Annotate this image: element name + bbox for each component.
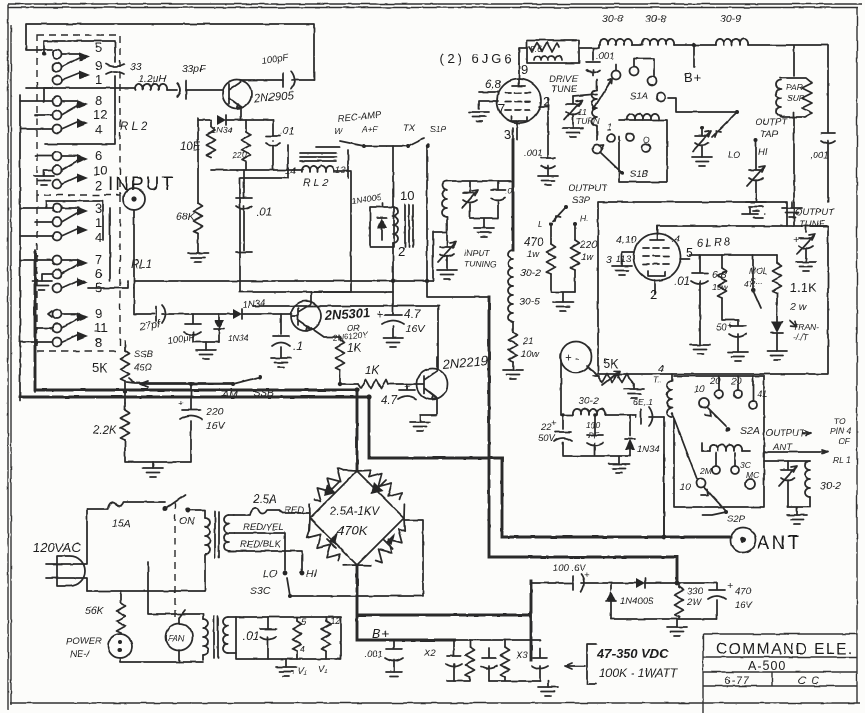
svg-text:33: 33	[130, 61, 142, 73]
capacitor 100uF	[184, 314, 219, 342]
parasitic suppressor R-L box	[527, 40, 579, 63]
ground audio in	[205, 342, 207, 350]
wire INPUT drop and RF bus	[134, 210, 433, 281]
svg-text:ANT: ANT	[757, 533, 801, 554]
svg-text:1K: 1K	[347, 343, 362, 355]
svg-text:O: O	[643, 135, 650, 145]
svg-text:+: +	[584, 570, 590, 581]
svg-text:12: 12	[93, 107, 107, 122]
wire coil to S2B	[672, 413, 697, 479]
svg-text:OUTPUT: OUTPUT	[766, 428, 806, 439]
relay RL2 contact group 8-12-4	[53, 93, 108, 137]
svg-text:220: 220	[205, 406, 224, 418]
svg-text:2M: 2M	[699, 466, 713, 476]
diode 1N34 series	[178, 313, 233, 315]
svg-text:+: +	[727, 320, 733, 332]
ground under .01	[236, 251, 252, 253]
svg-text:68K: 68K	[176, 211, 196, 223]
svg-text:100: 100	[586, 420, 600, 430]
mechanical link dashed	[174, 502, 176, 618]
grounds cathode parts	[690, 345, 710, 354]
svg-text:R L 2: R L 2	[303, 177, 328, 189]
6LR8 plate to top	[656, 232, 658, 234]
switch S1B wafer	[619, 120, 667, 182]
transistor Q1 2N2905	[223, 80, 252, 109]
svg-text:5: 5	[95, 40, 102, 55]
svg-text:6: 6	[95, 266, 102, 281]
svg-text:100 .6V: 100 .6V	[553, 563, 587, 574]
svg-text:OUTPUT: OUTPUT	[795, 207, 835, 218]
T2 core	[405, 205, 413, 247]
resistor 1.1K 2W	[776, 255, 778, 263]
capacitor 22 50V	[554, 415, 572, 455]
svg-text:11: 11	[94, 320, 108, 335]
capacitor .001 screen	[586, 48, 600, 76]
transformer T1 primary	[205, 518, 210, 554]
coil 30-2 output	[805, 461, 810, 497]
coil 30-2 mod	[561, 414, 573, 416]
filter output cap	[505, 640, 548, 681]
fuse 15A primary	[87, 502, 165, 509]
svg-text:B+: B+	[684, 70, 702, 85]
6LR8 output bus pin5	[690, 254, 777, 256]
svg-text:TX: TX	[403, 123, 416, 134]
svg-text:6.8: 6.8	[712, 269, 727, 281]
ground 470/220	[551, 292, 575, 302]
fuse 2.5A secondary	[234, 508, 310, 515]
svg-text:12: 12	[330, 616, 341, 627]
svg-text:4.7: 4.7	[381, 395, 398, 407]
output coupling variable cap	[779, 461, 797, 507]
wires output tap bus	[668, 98, 737, 112]
wire plate to suppressor	[519, 48, 527, 64]
diode 1N34 shunt	[218, 314, 220, 320]
svg-text:3: 3	[606, 254, 612, 266]
svg-text:10: 10	[694, 384, 705, 395]
transistor Q2 2N5301	[291, 301, 321, 331]
capacitor .001 pin2	[541, 158, 555, 176]
wire relay rows interconnect	[20, 88, 53, 342]
svg-text:C C: C C	[798, 675, 820, 687]
wire AM/SSB arm	[338, 382, 342, 386]
transformer T2L core	[214, 616, 218, 658]
fan motor B1	[166, 624, 193, 651]
transistor Q3 2N2219	[417, 369, 448, 400]
svg-text:113: 113	[616, 254, 632, 265]
relay RL1 dashed enclosure	[37, 195, 120, 351]
svg-text:20: 20	[730, 376, 742, 387]
capacitor 100pF feedback	[283, 71, 295, 89]
capacitor .01 second	[243, 170, 245, 198]
capacitor .01 heater	[260, 617, 276, 659]
svg-text:V₁: V₁	[318, 664, 327, 675]
svg-text:45Ω: 45Ω	[134, 362, 152, 373]
wire RL1 common to bus	[88, 208, 128, 288]
relay RL1 contact group 9-11-8	[48, 306, 108, 350]
svg-text:MC: MC	[746, 470, 760, 480]
diode D1 1N34	[198, 119, 211, 121]
svg-text:.01: .01	[256, 207, 272, 219]
ground heater	[285, 659, 287, 667]
svg-text:POWER: POWER	[66, 636, 102, 647]
svg-text:2: 2	[543, 94, 550, 109]
exciter module box	[240, 145, 351, 292]
svg-text:+ -: + -	[565, 353, 579, 365]
svg-text:1: 1	[95, 72, 102, 87]
primary loop wires	[87, 510, 205, 591]
svg-text:4: 4	[95, 230, 102, 245]
wire S3C to bridge AC2	[290, 520, 423, 596]
ground LV rail	[611, 619, 717, 627]
tube V2 6LR8	[634, 234, 681, 281]
wire top feedback loop	[26, 24, 314, 80]
ground at contact group 7-6-5	[32, 281, 52, 290]
switch S3P output	[564, 205, 568, 209]
meter M1	[561, 342, 592, 373]
capacitor 33	[106, 64, 124, 74]
parasitic choke PAR	[780, 78, 812, 117]
switch S2 coil	[702, 450, 710, 452]
coil 30-8 first	[579, 45, 599, 48]
transformer T1 core	[215, 512, 219, 558]
svg-text:2.2K: 2.2K	[92, 425, 118, 437]
resistor 2.2K	[123, 390, 127, 394]
svg-text:SUP: SUP	[787, 93, 805, 103]
svg-text:S3C: S3C	[250, 585, 271, 597]
svg-text:S...: S...	[750, 276, 763, 286]
svg-text:. V₁: . V₁	[292, 666, 307, 677]
svg-text:1N4005: 1N4005	[620, 596, 654, 607]
switch S2A	[699, 398, 709, 408]
output tune trimmer	[797, 226, 828, 258]
transformer RL2 secondary coil	[302, 166, 334, 172]
svg-text:30-9: 30-9	[720, 13, 741, 25]
capacitor 470 16V out	[708, 583, 726, 619]
svg-text:X3: X3	[515, 650, 528, 661]
svg-text:TUNE: TUNE	[551, 84, 578, 95]
heavy bus lower	[20, 397, 731, 537]
diode 1N34 mod clamp	[629, 415, 631, 436]
svg-text:9: 9	[521, 62, 528, 77]
relay inner frame	[44, 41, 115, 144]
svg-text:RED/YEL: RED/YEL	[243, 522, 284, 533]
wire cap to base	[186, 89, 222, 91]
ground cap 4.7	[383, 338, 403, 347]
svg-text:COMMAND ELE.: COMMAND ELE.	[716, 641, 854, 658]
relay RL1 contact group 3-1-4	[53, 201, 103, 245]
capacitor .001 plate right	[821, 45, 835, 202]
svg-text:7: 7	[95, 252, 102, 267]
svg-text:T..: T..	[653, 375, 662, 385]
svg-text:PF: PF	[588, 430, 600, 440]
heater network box	[236, 617, 341, 659]
svg-text:330: 330	[687, 586, 704, 597]
diode 1N4005 clamp	[610, 583, 612, 590]
input tuning coil L-IN	[442, 181, 447, 217]
S2 assembly box	[674, 376, 764, 507]
wire 2N2219 collector up to module rail	[253, 306, 439, 369]
svg-text:16V: 16V	[406, 323, 426, 335]
transformer T1 secondary	[224, 515, 229, 551]
svg-text:+: +	[793, 234, 799, 246]
wire coupling to ANT bus	[663, 417, 665, 537]
ground 2.2K	[152, 462, 154, 468]
svg-text:5K: 5K	[603, 356, 619, 371]
svg-text:1: 1	[95, 215, 102, 230]
svg-text:A-500: A-500	[748, 659, 786, 673]
svg-text:50V: 50V	[538, 433, 557, 444]
svg-text:RED/BLK: RED/BLK	[240, 539, 281, 550]
ground input tuning	[437, 270, 457, 279]
node junction T2/bus	[391, 279, 395, 283]
drive coil	[592, 90, 597, 126]
capacitor 100 6V audio out	[531, 574, 636, 592]
svg-text:5: 5	[301, 617, 307, 628]
coil 30-2 chain	[508, 250, 513, 286]
svg-text:6-77: 6-77	[724, 675, 750, 687]
svg-text:14: 14	[285, 166, 296, 177]
svg-text:S3P: S3P	[572, 195, 591, 206]
wire RED/YEL tap	[234, 533, 285, 570]
tube V1 6JG6	[497, 79, 541, 123]
T2 driver transformer coil	[393, 207, 398, 243]
svg-text:+: +	[404, 381, 410, 393]
svg-text:4: 4	[300, 644, 305, 655]
resistor 56K bleeder	[120, 591, 122, 603]
ground at contact group 6-10-2	[34, 176, 54, 185]
coil 30-9	[674, 44, 716, 46]
svg-text:RL 1: RL 1	[833, 455, 851, 465]
coil 30-5 chain	[508, 286, 513, 322]
svg-text:4: 4	[658, 363, 664, 375]
svg-text:21: 21	[522, 336, 534, 347]
wire to coupling cap	[167, 89, 177, 91]
relay inner frame D	[46, 201, 103, 240]
svg-text:470: 470	[524, 237, 544, 249]
wire pin13 up to switch	[334, 170, 351, 172]
svg-text:9: 9	[95, 306, 102, 321]
svg-text:TUNE: TUNE	[799, 219, 826, 230]
svg-text:-/./T: -/./T	[793, 332, 809, 342]
diode series rail	[636, 578, 645, 588]
svg-text:16V: 16V	[206, 420, 226, 432]
svg-text:LO: LO	[728, 150, 741, 161]
svg-text:HI: HI	[306, 568, 317, 580]
svg-text:30-2: 30-2	[820, 480, 841, 492]
svg-text:5K: 5K	[92, 360, 108, 375]
wire S1P drop to RF bus	[426, 146, 428, 281]
svg-text:W: W	[334, 126, 343, 136]
resistor 68K	[197, 125, 199, 203]
potentiometer 5K bias	[593, 375, 599, 377]
resistor 220 1W	[574, 224, 576, 240]
ground variable cap HI	[746, 202, 766, 211]
trimmer capacitor input 1	[447, 181, 513, 193]
svg-text:ON: ON	[179, 515, 195, 527]
svg-text:+: +	[376, 309, 383, 321]
resistor 470 1W	[550, 224, 552, 244]
heavy bus upper	[35, 252, 357, 390]
relay RL2 dashed enclosure	[37, 35, 120, 195]
lamp NE-1 POWER	[120, 633, 122, 634]
svg-text:,001: ,001	[810, 150, 829, 161]
wire RED/BLK tap	[229, 551, 302, 570]
svg-text:FAN: FAN	[168, 633, 185, 643]
svg-text:4.7: 4.7	[404, 309, 421, 321]
svg-text:2.5A-1KV: 2.5A-1KV	[329, 506, 381, 518]
capacitor 33pF	[177, 81, 186, 99]
svg-text:.0: .0	[505, 186, 512, 196]
wire relay feed left vertical pair	[20, 95, 35, 401]
svg-text:6LR8: 6LR8	[697, 236, 733, 250]
capacitor 6E,1 coupling	[636, 407, 664, 426]
resistor 10E	[197, 118, 199, 125]
capacitor 4.7 base	[398, 384, 416, 399]
svg-text:6E,.1: 6E,.1	[633, 397, 653, 407]
title block	[703, 634, 857, 713]
svg-text:TUNING: TUNING	[464, 259, 497, 269]
svg-text:10w: 10w	[712, 282, 728, 292]
svg-text:1K: 1K	[365, 365, 380, 377]
svg-text:OUTPUT: OUTPUT	[568, 183, 608, 194]
resistor 1K base 2N2219	[358, 380, 388, 389]
svg-text:20: 20	[709, 376, 721, 387]
potentiometer 5K audio gain	[124, 350, 126, 352]
ground pot 5K	[624, 389, 644, 398]
svg-text:A+F: A+F	[361, 124, 379, 134]
svg-text:41: 41	[757, 389, 768, 400]
svg-text:L: L	[538, 219, 543, 229]
svg-text:TO: TO	[834, 416, 846, 426]
svg-text:H.: H.	[580, 213, 589, 223]
svg-text:2W: 2W	[686, 597, 702, 608]
svg-text:100K - 1WATT: 100K - 1WATT	[599, 666, 679, 680]
ground variable cap LO	[692, 157, 712, 166]
ground tube V1 pins	[469, 112, 489, 121]
relay RL2 contact group 6-10-2	[53, 148, 108, 193]
capacitor 50+ cathode	[729, 320, 746, 352]
svg-text:30-2: 30-2	[520, 267, 541, 279]
capacitor 100 PF mod	[587, 415, 603, 455]
svg-text:X2: X2	[423, 648, 436, 659]
resistor 6.8 10W	[721, 255, 723, 268]
svg-text:2: 2	[95, 178, 102, 193]
capacitor .01 output	[691, 255, 708, 345]
svg-text:.01: .01	[243, 631, 259, 643]
svg-text:S1B: S1B	[630, 169, 649, 180]
svg-text:S1P: S1P	[430, 124, 446, 134]
svg-text:RED: RED	[284, 505, 304, 516]
svg-text:.001: .001	[524, 148, 543, 159]
svg-text:NE-/: NE-/	[70, 649, 90, 660]
variable capacitor input tuning	[438, 242, 456, 262]
svg-text:MOL: MOL	[749, 266, 768, 276]
svg-text:30-8: 30-8	[645, 13, 666, 25]
svg-text:220: 220	[231, 150, 246, 160]
svg-text:(2) 6JG6: (2) 6JG6	[440, 51, 515, 66]
svg-text:8: 8	[95, 335, 102, 350]
svg-text:OUTPT: OUTPT	[755, 117, 788, 128]
svg-text:2 w: 2 w	[789, 301, 808, 313]
diode transient	[771, 321, 783, 333]
svg-text:15A: 15A	[112, 518, 131, 530]
diode CR 1N4005 clamp	[370, 207, 394, 247]
ground mod network	[563, 456, 630, 464]
svg-text:30-5: 30-5	[519, 296, 540, 308]
capacitor .001 B+ line	[385, 640, 403, 672]
filter network X3	[470, 640, 505, 681]
svg-text:1.1K: 1.1K	[790, 280, 817, 295]
svg-text:.1: .1	[293, 341, 303, 353]
resistor 12 heater	[322, 621, 331, 651]
svg-text:S2A: S2A	[740, 425, 760, 437]
svg-text:16V: 16V	[735, 600, 754, 611]
ground output coil	[787, 515, 807, 524]
svg-text:S2P: S2P	[727, 514, 746, 525]
wire 6LR8 plate line	[657, 226, 828, 233]
svg-text:470K: 470K	[337, 523, 369, 538]
svg-text:2.5A: 2.5A	[252, 494, 277, 506]
svg-text:3: 3	[95, 201, 102, 216]
ground 2N2219 emitter	[410, 422, 430, 431]
ground drive tune	[563, 128, 583, 137]
svg-text:30-8: 30-8	[602, 13, 623, 25]
switch S3C LO/HI	[283, 571, 288, 576]
wire tube pin3 down the chain	[512, 140, 515, 250]
svg-text:LO: LO	[263, 568, 277, 580]
ANT connector J2	[731, 528, 756, 553]
svg-text:SSB: SSB	[134, 349, 154, 360]
svg-text:R L 2: R L 2	[120, 121, 148, 133]
svg-text:1w: 1w	[581, 252, 594, 263]
svg-text:4: 4	[95, 122, 102, 137]
note box 47-350 VDC	[587, 644, 596, 684]
svg-text:1w: 1w	[527, 249, 540, 260]
resistor R5 heater	[293, 621, 302, 651]
svg-text:HI: HI	[758, 147, 768, 158]
trimmer capacitor input 2	[491, 181, 505, 218]
capacitor 27pF audio in	[134, 281, 178, 323]
svg-text:1.2μH: 1.2μH	[138, 73, 166, 85]
inductor 1.2uH	[135, 84, 167, 90]
svg-text:220: 220	[579, 239, 598, 251]
svg-text:470: 470	[735, 586, 752, 597]
svg-text:10: 10	[93, 163, 107, 178]
svg-text:.001: .001	[364, 649, 383, 660]
INPUT connector J1	[123, 188, 145, 210]
svg-text:TAP: TAP	[760, 129, 778, 140]
svg-text:10: 10	[680, 482, 691, 493]
svg-text:10: 10	[400, 188, 414, 203]
svg-text:3: 3	[504, 127, 511, 142]
resistor 330 2W	[678, 583, 680, 587]
ground 6LR8 grid	[612, 266, 632, 275]
svg-text:9: 9	[95, 58, 102, 73]
svg-text:PAR: PAR	[786, 82, 803, 92]
switch S1A wafer	[612, 71, 621, 80]
relay RL1 contact group 7-6-5	[53, 252, 103, 295]
svg-text:+: +	[727, 580, 733, 592]
svg-text:.4: .4	[672, 234, 680, 245]
ground cap .001 pin2	[538, 176, 558, 185]
ground input trimmers	[470, 218, 498, 228]
bridge rectifier 2.5A-1KV	[305, 466, 409, 565]
switch S2B	[697, 479, 706, 488]
svg-text:33pF: 33pF	[182, 63, 207, 75]
svg-text:B+: B+	[372, 626, 390, 641]
svg-text:8: 8	[95, 93, 102, 108]
wire bus right end stub	[507, 180, 509, 182]
